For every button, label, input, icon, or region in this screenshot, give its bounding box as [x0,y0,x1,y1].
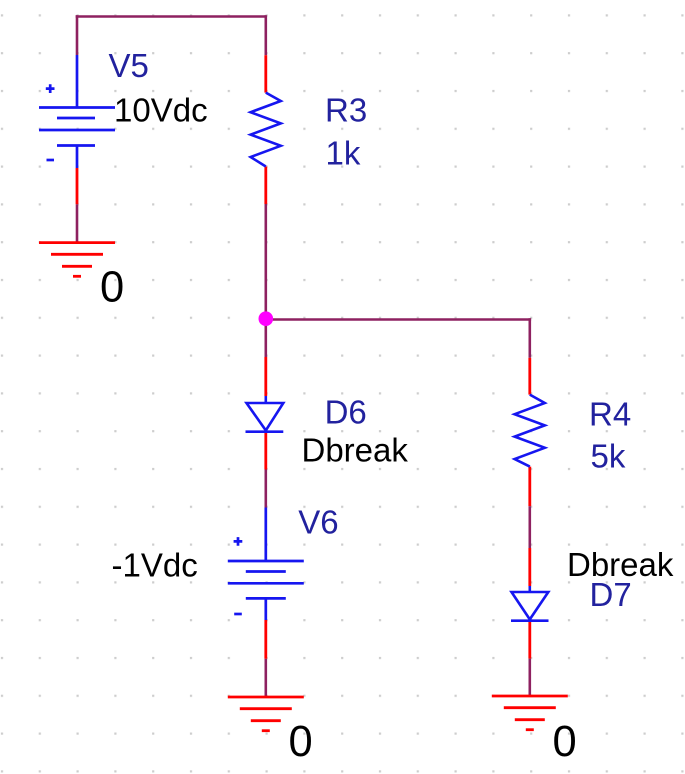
wire: V6 negative to ground [264,659,267,697]
wire: R4 to D7 [528,506,531,548]
svg-text:R3: R3 [325,91,367,128]
ground 0 (left) [39,243,115,277]
ground 0 (middle) [228,697,304,731]
svg-text:10Vdc: 10Vdc [114,92,208,129]
wire: R3 to node A [264,204,267,320]
voltage source V6 (battery symbol) [228,508,304,621]
wire: node A horizontal to R4 branch [266,318,531,321]
wire: V5 negative to ground [76,204,79,242]
voltage source V5 (battery symbol) [39,55,115,168]
resistor R4 [528,358,531,506]
pin: V5 negative pin [76,168,79,204]
diode D7 (Dbreak) [528,548,531,659]
svg-text:V6: V6 [298,503,338,540]
svg-text:R4: R4 [589,396,631,433]
svg-text:5k: 5k [591,438,626,475]
wire: top net horizontal segment V5 to R3 [76,15,266,18]
svg-text:V5: V5 [109,47,149,84]
svg-text:D7: D7 [590,576,632,613]
diode D6 (Dbreak) [264,357,267,470]
resistor R3 [264,55,267,204]
svg-text:D6: D6 [325,393,367,430]
wire: top net vertical drop to R3 pin [264,15,267,55]
node A (junction dot) [259,311,274,326]
pin: V6 negative pin [264,620,267,659]
wire: top net vertical drop to V5 plus pin [76,15,79,55]
wire: D7 to ground [528,659,531,696]
wire: node A branch down to R4 [528,318,531,358]
svg-text:Dbreak: Dbreak [302,431,409,468]
svg-text:0: 0 [553,718,577,766]
ground 0 (right) [492,696,568,730]
wire: D6 to V6 [264,470,267,508]
svg-text:1k: 1k [326,135,361,172]
svg-text:0: 0 [100,264,124,312]
svg-text:-1Vdc: -1Vdc [112,546,198,583]
svg-text:0: 0 [289,718,313,766]
wire: node A down to D6 [264,320,267,358]
